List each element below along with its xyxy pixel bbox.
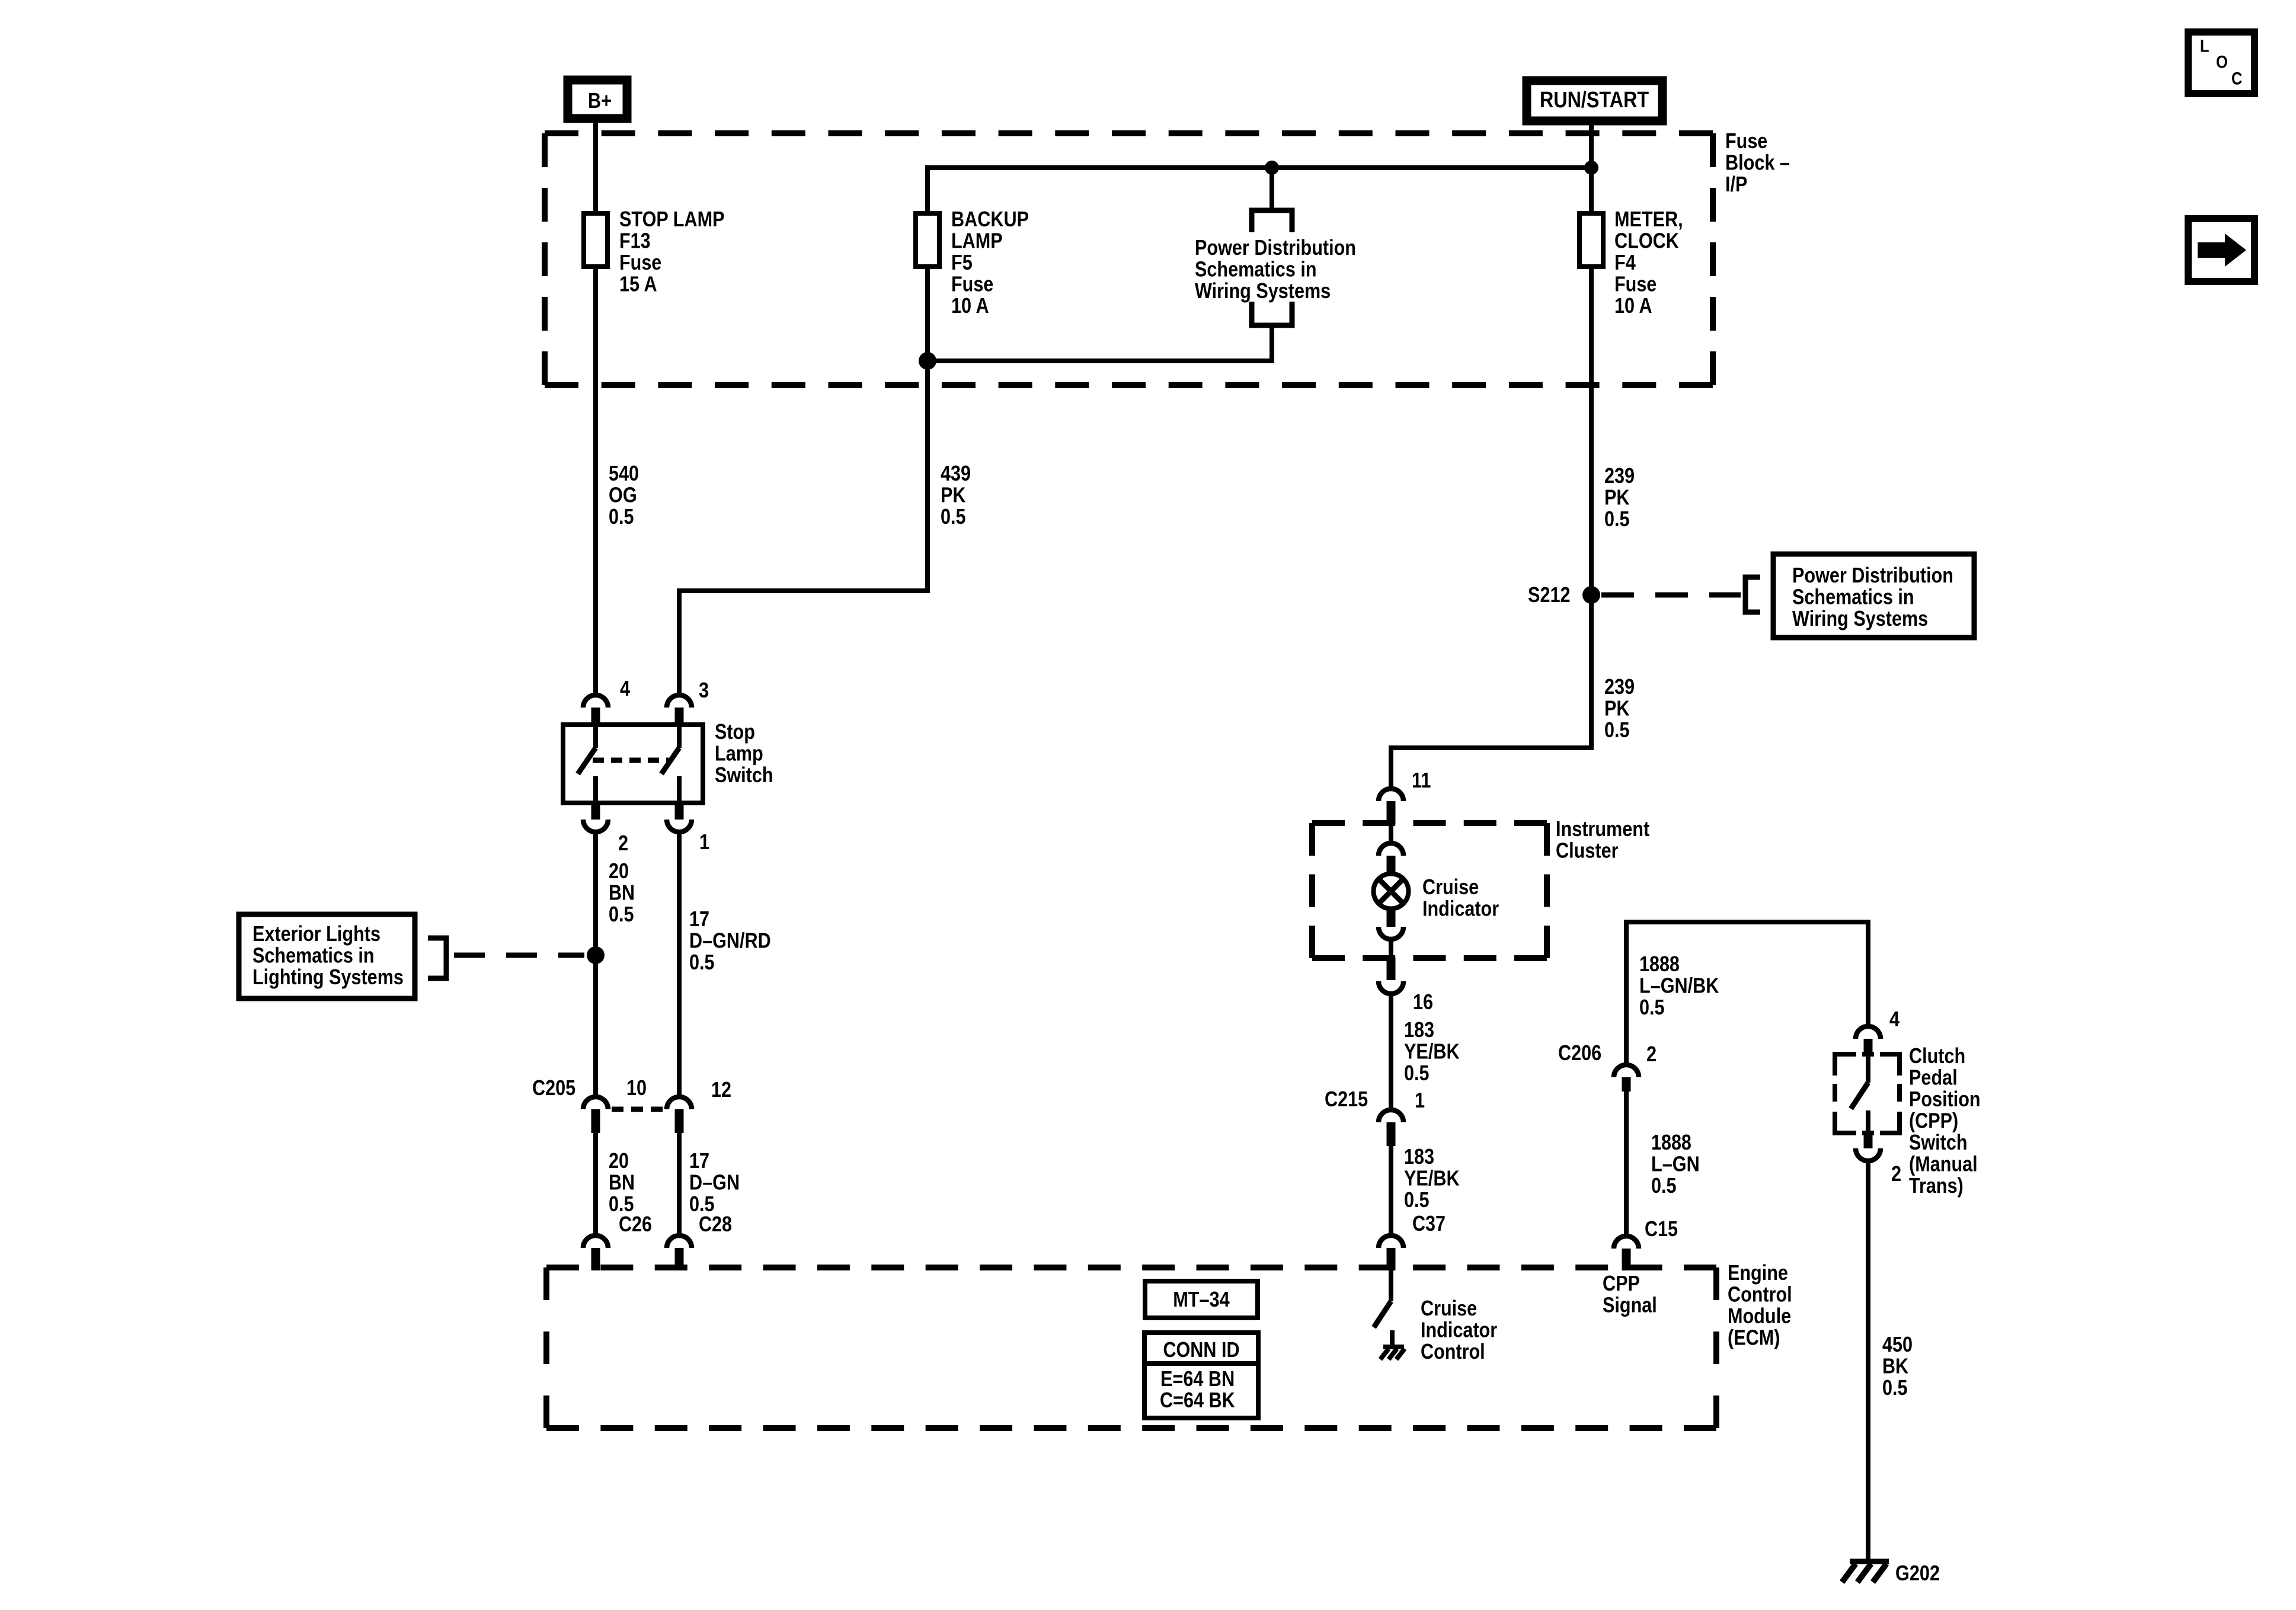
instrument cluster dashed box <box>1312 820 1547 826</box>
svg-text:YE/BK: YE/BK <box>1404 1166 1460 1190</box>
instrument cluster pin 11 connector <box>1379 768 1431 824</box>
svg-text:10 A: 10 A <box>1614 293 1652 318</box>
svg-text:Indicator: Indicator <box>1421 1317 1497 1342</box>
svg-text:O: O <box>2216 53 2228 72</box>
ground G202 <box>1842 1561 1940 1585</box>
stop lamp switch pin 4 connector <box>583 676 630 725</box>
svg-text:PK: PK <box>941 482 966 507</box>
svg-text:OG: OG <box>609 482 637 507</box>
wire power distribution connector to backup feed <box>928 325 1272 361</box>
wire RUN/START to fuse F4 <box>1589 121 1594 216</box>
label Power Distribution Schematics in Wiring Systems (fuse block) <box>1195 235 1356 303</box>
svg-text:BACKUP: BACKUP <box>951 207 1029 231</box>
label circuit 239 PK 0.5 lower <box>1604 674 1635 742</box>
svg-text:Switch: Switch <box>715 763 773 787</box>
svg-text:239: 239 <box>1604 463 1635 488</box>
cruise indicator control driver switch <box>1374 1270 1392 1348</box>
svg-text:0.5: 0.5 <box>1604 718 1630 742</box>
svg-text:C=64 BK: C=64 BK <box>1160 1388 1235 1412</box>
label circuit 1888 L-GN 0.5 <box>1651 1130 1700 1198</box>
svg-text:4: 4 <box>1889 1007 1900 1031</box>
svg-text:F5: F5 <box>951 250 973 274</box>
svg-text:1: 1 <box>1415 1088 1425 1112</box>
svg-text:3: 3 <box>699 678 709 702</box>
svg-text:540: 540 <box>609 461 639 485</box>
svg-text:L–GN: L–GN <box>1651 1151 1700 1176</box>
fuse F13 <box>584 213 607 267</box>
connector C15 <box>1614 1217 1678 1270</box>
svg-text:10 A: 10 A <box>951 293 989 318</box>
svg-text:Schematics in: Schematics in <box>1195 257 1317 281</box>
svg-text:Wiring Systems: Wiring Systems <box>1195 279 1331 303</box>
reference box Exterior Lights Schematics in Lighting Systems <box>239 914 415 998</box>
fuse F4 <box>1579 213 1603 267</box>
svg-text:Schematics in: Schematics in <box>252 943 375 967</box>
connector C206 pin 2 <box>1558 1041 1657 1092</box>
svg-text:D–GN/RD: D–GN/RD <box>689 928 771 952</box>
svg-text:183: 183 <box>1404 1017 1434 1042</box>
label circuit 20 BN 0.5 lower <box>609 1148 635 1216</box>
svg-text:Clutch: Clutch <box>1909 1044 1965 1068</box>
svg-text:Pedal: Pedal <box>1909 1065 1958 1089</box>
fuse block I/P dashed box <box>545 130 1713 136</box>
junction dot backup feed <box>919 352 936 370</box>
svg-text:G202: G202 <box>1895 1561 1940 1585</box>
svg-text:Exterior Lights: Exterior Lights <box>252 921 380 946</box>
svg-text:2: 2 <box>1891 1161 1901 1186</box>
CPP switch lever and contacts <box>1851 1055 1868 1133</box>
cluster pin 16 connector <box>1379 958 1433 1014</box>
svg-text:2: 2 <box>1646 1042 1657 1066</box>
svg-text:C26: C26 <box>619 1212 652 1236</box>
label Cruise Indicator Control <box>1421 1296 1497 1363</box>
grid reference box MT-34 <box>1145 1281 1258 1318</box>
fuse F5 <box>916 213 939 267</box>
svg-text:0.5: 0.5 <box>609 504 634 529</box>
stop lamp switch pin 2 connector <box>583 803 628 855</box>
internal ground cruise indicator control <box>1380 1347 1405 1359</box>
svg-text:Lighting Systems: Lighting Systems <box>252 965 404 989</box>
label METER CLOCK F4 fuse 10 A <box>1614 207 1683 318</box>
reference box Power Distribution Schematics in Wiring Systems <box>1773 554 1974 638</box>
svg-text:Cruise: Cruise <box>1422 875 1479 899</box>
cruise indicator lamp <box>1374 874 1409 909</box>
svg-text:0.5: 0.5 <box>1882 1375 1908 1400</box>
svg-text:20: 20 <box>609 859 629 883</box>
svg-text:Control: Control <box>1728 1282 1792 1306</box>
svg-text:PK: PK <box>1604 485 1630 509</box>
svg-text:1: 1 <box>699 830 709 854</box>
svg-text:C206: C206 <box>1558 1041 1601 1065</box>
svg-text:12: 12 <box>711 1077 731 1102</box>
label circuit 17 D-GN/RD 0.5 <box>689 907 771 974</box>
svg-text:CLOCK: CLOCK <box>1614 228 1679 252</box>
stop lamp switch box <box>563 725 703 803</box>
junction dot at RUN/START feed <box>1584 161 1598 175</box>
connector C205 pin 12 <box>667 1077 731 1133</box>
svg-text:0.5: 0.5 <box>609 902 634 926</box>
svg-text:Stop: Stop <box>715 719 755 744</box>
svg-text:20: 20 <box>609 1148 629 1173</box>
svg-text:S212: S212 <box>1528 582 1571 607</box>
svg-text:450: 450 <box>1882 1332 1913 1356</box>
svg-text:STOP LAMP: STOP LAMP <box>619 207 725 231</box>
wire 439 PK from F5 to stop lamp switch pin 3 <box>679 267 928 693</box>
reference bracket left <box>428 938 446 978</box>
svg-text:C: C <box>2231 69 2242 89</box>
label circuit 439 PK 0.5 <box>941 461 971 529</box>
label circuit 1888 L-GN/BK 0.5 <box>1639 952 1719 1019</box>
svg-text:L–GN/BK: L–GN/BK <box>1639 973 1719 997</box>
power terminal B+ <box>568 80 627 119</box>
svg-text:16: 16 <box>1413 990 1433 1014</box>
label Cruise Indicator <box>1422 875 1499 921</box>
svg-text:YE/BK: YE/BK <box>1404 1039 1460 1063</box>
reference bracket right <box>1745 577 1760 612</box>
svg-text:15 A: 15 A <box>619 271 657 296</box>
power distribution connector bottom half-box <box>1252 302 1292 325</box>
svg-text:(ECM): (ECM) <box>1728 1325 1780 1349</box>
stop lamp switch pin 3 connector <box>667 678 709 725</box>
svg-text:Fuse: Fuse <box>1725 129 1767 153</box>
svg-text:Schematics in: Schematics in <box>1792 584 1914 609</box>
svg-text:F13: F13 <box>619 228 651 252</box>
connector C37 <box>1379 1211 1446 1270</box>
svg-text:Fuse: Fuse <box>1614 271 1657 296</box>
svg-text:I/P: I/P <box>1725 172 1747 196</box>
svg-text:Cruise: Cruise <box>1421 1296 1477 1320</box>
connector id table <box>1144 1333 1258 1418</box>
svg-text:CPP: CPP <box>1603 1271 1640 1295</box>
lamp bottom pin connector <box>1379 908 1403 958</box>
cluster internal pin connector <box>1379 823 1403 872</box>
svg-text:Power Distribution: Power Distribution <box>1195 235 1356 260</box>
svg-text:C205: C205 <box>532 1076 575 1100</box>
wire 450 BK CPP to ground <box>1866 1161 1870 1561</box>
CPP switch pin 4 connector <box>1856 1007 1900 1055</box>
svg-text:439: 439 <box>941 461 971 485</box>
svg-text:Control: Control <box>1421 1339 1485 1363</box>
svg-text:17: 17 <box>689 907 709 931</box>
label Fuse Block I/P <box>1725 129 1790 196</box>
LOC reference icon box <box>2188 32 2255 94</box>
connector C215 pin 1 <box>1325 1087 1425 1146</box>
wire tap to power distribution connector <box>1269 168 1274 210</box>
label Stop Lamp Switch <box>715 719 773 787</box>
svg-text:183: 183 <box>1404 1144 1434 1169</box>
svg-text:17: 17 <box>689 1148 709 1173</box>
junction dot exterior lights tap <box>587 946 605 964</box>
wire 1888 L-GN C206 to C15 <box>1624 1091 1629 1236</box>
forward arrow icon box <box>2188 219 2255 281</box>
svg-text:PK: PK <box>1604 696 1630 720</box>
stop lamp switch pin 1 connector <box>667 803 709 854</box>
label circuit 20 BN 0.5 upper <box>609 859 635 926</box>
label Engine Control Module ECM <box>1728 1260 1792 1350</box>
svg-text:Block –: Block – <box>1725 150 1790 174</box>
wire backup lamp feed horizontal <box>928 168 1591 213</box>
svg-text:0.5: 0.5 <box>1604 507 1630 531</box>
svg-text:BN: BN <box>609 1170 635 1194</box>
svg-text:BN: BN <box>609 880 635 904</box>
svg-text:RUN/START: RUN/START <box>1540 88 1649 113</box>
wire 183 YE/BK C215 to C37 <box>1389 1146 1393 1236</box>
engine control module dashed box <box>546 1265 1716 1270</box>
stop lamp switch contacts and levers <box>578 727 679 801</box>
splice S212 <box>1528 582 1600 607</box>
svg-text:Fuse: Fuse <box>951 271 993 296</box>
svg-text:C28: C28 <box>699 1212 732 1236</box>
svg-text:Module: Module <box>1728 1304 1791 1328</box>
connector C205 dashed divider and label <box>532 1076 664 1109</box>
connector C28 <box>667 1212 732 1270</box>
label BACKUP LAMP F5 fuse 10 A <box>951 207 1029 318</box>
CPP switch pin 2 connector <box>1856 1133 1901 1186</box>
label circuit 239 PK 0.5 upper <box>1604 463 1635 531</box>
label circuit 183 YE/BK 0.5 upper <box>1404 1017 1460 1085</box>
power terminal RUN/START <box>1527 81 1662 121</box>
svg-text:0.5: 0.5 <box>1651 1173 1677 1198</box>
label Instrument Cluster <box>1556 817 1649 863</box>
wire 17 D-GN C205 to C28 <box>677 1133 682 1236</box>
svg-text:1888: 1888 <box>1651 1130 1691 1154</box>
svg-text:Wiring Systems: Wiring Systems <box>1792 606 1928 630</box>
svg-text:(CPP): (CPP) <box>1909 1108 1958 1132</box>
svg-text:Indicator: Indicator <box>1422 896 1499 920</box>
svg-text:MT–34: MT–34 <box>1173 1287 1230 1311</box>
clutch pedal position switch dashed box <box>1835 1054 1900 1133</box>
svg-text:0.5: 0.5 <box>1404 1188 1430 1212</box>
dashed reference link from S212 <box>1601 593 1741 598</box>
svg-text:METER,: METER, <box>1614 207 1683 231</box>
svg-text:Trans): Trans) <box>1909 1173 1964 1198</box>
label circuit 183 YE/BK 0.5 lower <box>1404 1144 1460 1212</box>
svg-text:0.5: 0.5 <box>1639 995 1665 1019</box>
svg-text:239: 239 <box>1604 674 1635 699</box>
svg-text:4: 4 <box>620 676 630 700</box>
svg-text:F4: F4 <box>1614 250 1636 274</box>
label STOP LAMP F13 fuse 15 A <box>619 207 725 296</box>
svg-text:Lamp: Lamp <box>715 741 763 765</box>
wire 1888 L-GN/BK riser to CPP switch <box>1626 922 1868 1063</box>
svg-text:Signal: Signal <box>1603 1292 1657 1317</box>
svg-text:Instrument: Instrument <box>1556 817 1649 841</box>
svg-text:E=64 BN: E=64 BN <box>1160 1366 1235 1391</box>
svg-text:B+: B+ <box>588 88 612 113</box>
wire 239 PK from F4 to instrument cluster pin 11 <box>1391 267 1591 787</box>
connector C26 <box>583 1212 652 1270</box>
svg-text:L: L <box>2200 37 2209 56</box>
svg-text:Cluster: Cluster <box>1556 838 1619 862</box>
label circuit 450 BK 0.5 <box>1882 1332 1913 1400</box>
svg-text:(Manual: (Manual <box>1909 1151 1978 1176</box>
label circuit 540 OG 0.5 <box>609 461 639 529</box>
svg-text:0.5: 0.5 <box>1404 1061 1430 1085</box>
label circuit 17 D-GN 0.5 <box>689 1148 740 1216</box>
wire 20 BN C205 to C26 <box>593 1133 598 1236</box>
svg-text:2: 2 <box>618 831 628 855</box>
label CPP Signal <box>1603 1271 1657 1317</box>
svg-text:C37: C37 <box>1412 1211 1446 1235</box>
svg-text:Engine: Engine <box>1728 1260 1788 1285</box>
wire 17 D-GN/RD pin 1 to C205 <box>677 832 682 1095</box>
svg-text:LAMP: LAMP <box>951 228 1003 252</box>
svg-text:D–GN: D–GN <box>689 1170 740 1194</box>
svg-text:Position: Position <box>1909 1087 1981 1111</box>
wire 20 BN pin 2 to C205 <box>593 832 598 1095</box>
dashed reference link to exterior lights splice <box>454 953 584 958</box>
wire 183 YE/BK pin 16 to C215 <box>1389 994 1393 1108</box>
svg-text:C15: C15 <box>1645 1217 1678 1241</box>
svg-text:C215: C215 <box>1325 1087 1368 1111</box>
svg-text:BK: BK <box>1882 1353 1908 1378</box>
svg-text:CONN ID: CONN ID <box>1163 1337 1239 1362</box>
wire B+ to fuse F13 <box>593 119 598 216</box>
svg-text:0.5: 0.5 <box>941 504 966 529</box>
svg-text:Fuse: Fuse <box>619 250 661 274</box>
junction dot power distribution tap <box>1265 161 1279 175</box>
svg-text:Switch: Switch <box>1909 1130 1968 1154</box>
wire 540 OG from F13 to stop lamp switch pin 4 <box>593 267 598 693</box>
svg-text:0.5: 0.5 <box>689 950 715 974</box>
svg-text:11: 11 <box>1412 768 1431 792</box>
svg-text:10: 10 <box>626 1076 647 1100</box>
connector C205 pin 10 <box>583 1076 647 1133</box>
power distribution connector top half-box <box>1252 210 1292 232</box>
svg-text:Power Distribution: Power Distribution <box>1792 563 1953 587</box>
label Clutch Pedal Position CPP Switch Manual Trans <box>1909 1044 1981 1198</box>
svg-text:1888: 1888 <box>1639 952 1680 976</box>
